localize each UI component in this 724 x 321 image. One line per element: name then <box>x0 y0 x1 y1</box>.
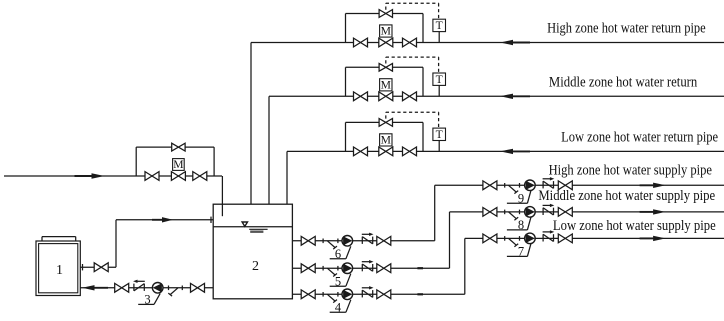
wire: high zone supply pipe <box>435 184 724 186</box>
flange tick at tank inlet <box>210 217 212 223</box>
svg-text:8: 8 <box>518 218 524 232</box>
pump 3 <box>152 283 163 294</box>
valve: gate valve after pump 8 <box>558 208 572 217</box>
check valve after pump 9 <box>543 177 555 188</box>
valve: gate valve after pump 7 <box>558 234 572 243</box>
valve: gate valve right of pump 3 <box>191 283 205 292</box>
flange tick left of strainer 9 <box>504 183 506 188</box>
control line (dashed) high return <box>386 3 439 19</box>
actuator M on low return motorized valve <box>380 134 392 147</box>
heater 1 body <box>36 241 80 296</box>
wire: heater to tank pipe <box>116 219 213 221</box>
label 5 (pump) <box>330 274 351 289</box>
control line (dashed) middle return <box>386 57 439 73</box>
flange tick left of strainer 7 <box>504 236 506 241</box>
valve: cold water isolation gate valve (left) <box>145 172 159 181</box>
strainer before pump 6 <box>327 241 337 249</box>
label: Middle zone hot water supply pipe <box>538 188 715 204</box>
valve: high return bypass gate valve <box>379 10 392 18</box>
label 2 (storage tank) <box>252 259 259 274</box>
actuator M on middle return motorized valve <box>380 79 392 92</box>
label: Middle zone hot water return <box>549 74 697 90</box>
valve: low return isolation gate valve (left) <box>354 147 368 156</box>
valve: gate valve left of pump 5 <box>301 264 315 273</box>
wire: high return bypass left leg <box>345 14 347 43</box>
wire: middle zone return pipe <box>269 95 724 97</box>
wire: heater outlet riser <box>115 220 117 267</box>
wire: cold water drop into tank <box>221 176 223 216</box>
wire: low return bypass right leg <box>422 122 424 151</box>
flange tick left of strainer 5 <box>322 266 324 271</box>
wire: middle return bypass left leg <box>345 67 347 96</box>
pump 8 <box>525 207 536 218</box>
valve: gate valve after pump 6 <box>377 236 391 245</box>
wire: pump 4 suction/discharge line <box>292 293 464 295</box>
label 8 (pump) <box>507 217 531 232</box>
valve: middle return bypass gate valve <box>379 63 392 71</box>
valve: gate valve before pump 7 <box>483 234 497 243</box>
valve: gate valve after pump 9 <box>558 181 572 190</box>
pump 9 <box>525 180 536 191</box>
valve: middle return isolation gate valve (right) <box>403 92 417 101</box>
label: Low zone hot water return pipe <box>561 129 718 145</box>
tank 2 body <box>213 204 292 299</box>
check valve left of pump 3 <box>133 280 145 291</box>
flow arrow on middle return (left) <box>500 94 530 99</box>
svg-text:T: T <box>436 128 443 141</box>
valve: gate valve after pump 4 <box>377 290 391 299</box>
tank water level line <box>213 226 292 228</box>
valve: gate valve before pump 8 <box>483 208 497 217</box>
wire: high return bypass top <box>346 13 424 15</box>
flow arrow on low supply <box>640 236 666 241</box>
wire: middle zone return drop to tank <box>268 96 270 204</box>
valve: low return isolation gate valve (right) <box>403 147 417 156</box>
actuator M on cold water motorized valve <box>173 158 185 171</box>
wire: tank to heater pipe <box>80 287 213 289</box>
flange tick right of strainer 6 <box>337 239 339 244</box>
wire: cold water make-up pipe <box>4 175 222 177</box>
strainer before pump 5 <box>327 268 337 276</box>
flange tick left of strainer 8 <box>504 210 506 215</box>
valve: low return motorized valve <box>379 147 393 156</box>
svg-text:6: 6 <box>335 247 341 261</box>
wire: middle return bypass right leg <box>422 67 424 96</box>
check valve after pump 4 <box>362 286 374 297</box>
svg-text:M: M <box>381 25 391 38</box>
valve: high return motorized valve <box>379 38 393 47</box>
valve: cold water motorized valve <box>171 172 185 181</box>
strainer right of pump 3 <box>168 288 178 296</box>
strainer before pump 4 <box>327 294 337 302</box>
flow arrow on high supply <box>640 183 666 188</box>
valve: cold water isolation gate valve (right) <box>193 172 207 181</box>
control line (dashed) low return <box>386 112 439 128</box>
label: High zone hot water return pipe <box>547 21 706 37</box>
valve: gate valve before pump 9 <box>483 181 497 190</box>
label: High zone hot water supply pipe <box>549 162 712 178</box>
valve: gate valve left of pump 4 <box>301 290 315 299</box>
sensor T: high return temperature sensor <box>433 19 446 32</box>
label 9 (pump) <box>507 191 531 206</box>
wire: riser from pump 4 line <box>464 238 466 294</box>
valve: high return isolation gate valve (left) <box>354 38 368 47</box>
svg-text:4: 4 <box>335 300 342 314</box>
svg-text:Middle zone hot water return: Middle zone hot water return <box>549 74 697 90</box>
wire: high zone return drop to tank <box>250 43 252 205</box>
svg-text:M: M <box>381 134 391 147</box>
valve: heater outlet gate valve <box>94 263 108 272</box>
wire: riser from pump 5 line <box>449 212 451 268</box>
strainer before pump 7 <box>509 238 519 246</box>
flow arrow on high return (left) <box>500 40 530 45</box>
valve: gate valve left of pump 3 <box>115 283 129 292</box>
sensor line: low return T sensor drop <box>438 140 440 151</box>
flange tick right of pump 3 <box>168 286 170 291</box>
pump 4 <box>342 289 353 300</box>
sensor T: middle return temperature sensor <box>433 73 446 86</box>
heater 1 lid <box>42 237 76 241</box>
wire: heater outlet pipe <box>80 266 116 268</box>
pump 7 <box>525 233 536 244</box>
svg-text:T: T <box>436 73 443 86</box>
joint mark on pump 4 line <box>417 293 423 295</box>
check valve after pump 8 <box>543 204 555 215</box>
wire: high zone return pipe <box>251 42 724 44</box>
flange tick right of strainer 7 <box>519 236 521 241</box>
flow arrow on low return (left) <box>500 149 530 154</box>
actuator M on high return motorized valve <box>380 25 392 38</box>
flange tick right of strainer 8 <box>519 210 521 215</box>
svg-text:1: 1 <box>56 263 63 278</box>
check valve after pump 5 <box>362 260 374 271</box>
valve: middle return isolation gate valve (left) <box>354 92 368 101</box>
wire: high return bypass right leg <box>422 14 424 43</box>
wire: cold water bypass right leg <box>213 147 215 176</box>
check valve after pump 6 <box>362 233 374 244</box>
pump 5 <box>342 263 353 274</box>
wire: low return bypass top <box>346 121 424 123</box>
water level symbol <box>242 222 268 232</box>
flow arrow heater to tank <box>152 217 173 222</box>
label 7 (pump) <box>507 244 531 259</box>
label 1 (water heater) <box>56 263 63 278</box>
valve: middle return motorized valve <box>379 92 393 101</box>
svg-text:T: T <box>436 19 443 32</box>
joint mark on pump 5 line <box>417 267 423 269</box>
wire: middle return bypass top <box>346 66 424 68</box>
valve: high return isolation gate valve (right) <box>403 38 417 47</box>
svg-text:M: M <box>173 158 183 171</box>
valve: gate valve after pump 5 <box>377 264 391 273</box>
flange tick left of strainer 4 <box>322 292 324 297</box>
check valve after pump 7 <box>543 230 555 241</box>
valve: gate valve left of pump 6 <box>301 236 315 245</box>
svg-text:M: M <box>381 79 391 92</box>
label 4 (pump) <box>330 300 351 315</box>
svg-text:Low zone hot water supply pipe: Low zone hot water supply pipe <box>553 218 716 234</box>
svg-text:Middle zone hot water supply p: Middle zone hot water supply pipe <box>538 188 715 204</box>
flange tick right of strainer 5 <box>337 266 339 271</box>
flange tick left of strainer 6 <box>322 239 324 244</box>
valve: low return bypass gate valve <box>379 119 392 127</box>
sensor line: high return T sensor drop <box>438 32 440 43</box>
wire: low zone supply pipe <box>465 237 724 239</box>
wire: pump 5 suction/discharge line <box>292 267 449 269</box>
svg-text:Low zone hot water return pipe: Low zone hot water return pipe <box>561 129 718 145</box>
strainer before pump 8 <box>509 212 519 220</box>
wire: low return bypass left leg <box>345 122 347 151</box>
svg-text:2: 2 <box>252 259 259 274</box>
svg-text:3: 3 <box>144 293 150 307</box>
flow arrow into heater <box>82 285 108 290</box>
flange tick right of strainer 4 <box>337 292 339 297</box>
label: Low zone hot water supply pipe <box>553 218 716 234</box>
flange tick right of strainer 9 <box>519 183 521 188</box>
pump 6 <box>342 236 353 247</box>
wire: middle zone supply pipe <box>450 211 724 213</box>
svg-text:5: 5 <box>335 274 341 288</box>
wire: cold water bypass left leg <box>135 147 137 176</box>
wire: low zone return pipe <box>287 150 724 152</box>
svg-text:7: 7 <box>518 245 524 259</box>
flow arrow on middle supply <box>640 209 666 214</box>
flange tick at heater outlet <box>82 264 84 270</box>
valve: cold water bypass gate valve <box>172 143 185 151</box>
svg-text:High zone hot water supply pip: High zone hot water supply pipe <box>549 162 712 178</box>
wire: cold water bypass top <box>136 146 214 148</box>
wire: low zone return drop to tank <box>286 151 288 204</box>
svg-text:9: 9 <box>518 191 524 205</box>
label 3 (circulation pump) <box>138 293 160 307</box>
sensor line: middle return T sensor drop <box>438 85 440 96</box>
flow arrow on cold water pipe <box>75 173 105 178</box>
sensor T: low return temperature sensor <box>433 128 446 141</box>
strainer before pump 9 <box>509 185 519 193</box>
wire: pump 6 suction/discharge line <box>292 240 434 242</box>
wire: riser from pump 6 line <box>434 185 436 241</box>
flange tick 2 right of pump 3 <box>181 286 183 291</box>
svg-text:High zone hot water return pip: High zone hot water return pipe <box>547 21 706 37</box>
label 6 (pump) <box>330 246 351 261</box>
